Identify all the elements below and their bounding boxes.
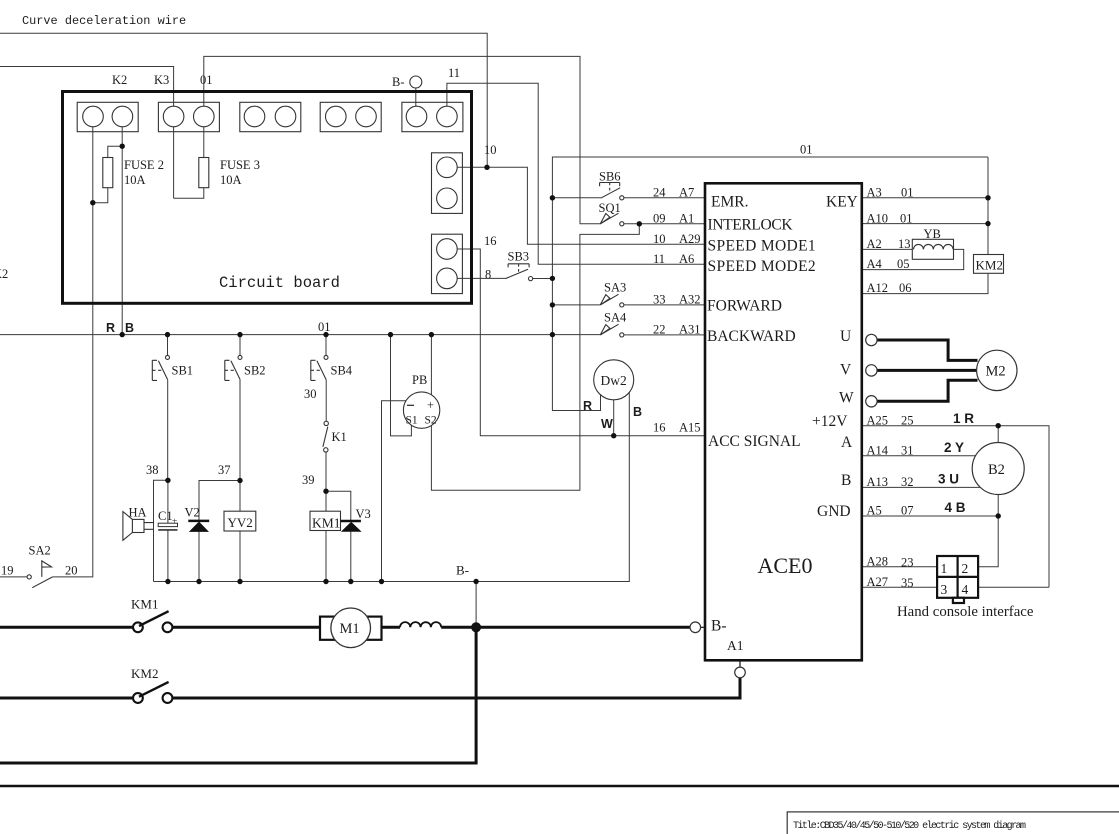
wire: SB2 to node 37: [239, 380, 241, 511]
svg-text:R: R: [106, 321, 115, 335]
contactor coil KM2: [974, 255, 1004, 274]
wire: ACE0 A3 KEY line to 01 rail: [862, 197, 988, 199]
svg-text:23: 23: [901, 556, 914, 570]
terminal block TB7 (right lower, pins 16/8): [432, 234, 463, 293]
wire: V phase: [877, 369, 977, 372]
svg-text:ACE0: ACE0: [758, 553, 813, 578]
fuse FUSE2: [103, 158, 113, 188]
terminal block TB5 on circuit board: [402, 102, 463, 131]
wire: SB6 out to ACE0 A7: [624, 197, 705, 199]
svg-text:FUSE 2: FUSE 2: [124, 158, 164, 172]
svg-text:01: 01: [800, 143, 813, 157]
wire: ACE0 A10 line to 01 rail: [862, 223, 988, 225]
svg-text:A13: A13: [867, 475, 889, 489]
svg-text:1 R: 1 R: [953, 411, 974, 426]
svg-text:SA3: SA3: [604, 281, 626, 295]
wire: B- sense from bus to motor junction: [475, 582, 477, 628]
pushbutton switch SB6 (horizontal): [600, 183, 624, 200]
svg-text:SPEED MODE1: SPEED MODE1: [708, 238, 816, 255]
svg-text:3: 3: [941, 582, 948, 597]
svg-text:B: B: [125, 321, 134, 335]
wire: 11 net from board terminal to ACE0 A6: [447, 83, 705, 264]
solenoid valve coil YV2: [224, 511, 256, 531]
svg-text:SA2: SA2: [29, 544, 51, 558]
svg-text:R: R: [583, 399, 592, 413]
wire: W phase: [877, 380, 978, 401]
svg-text:4: 4: [962, 582, 969, 597]
battery meter B2: [972, 443, 1024, 495]
svg-text:SB1: SB1: [172, 364, 194, 378]
svg-text:SQ1: SQ1: [599, 201, 621, 215]
svg-text:Hand console interface: Hand console interface: [897, 604, 1034, 620]
series inductor: [400, 622, 441, 627]
wire: SA3 branch: [552, 304, 600, 306]
wire: net 16 from board block to ACC line: [457, 249, 705, 436]
wire: YB out to ACE0 A4 05 line: [862, 249, 964, 269]
svg-text:KM2: KM2: [976, 258, 1003, 273]
wire: C1 bottom lead: [167, 530, 169, 582]
power contact KM1: [133, 611, 172, 632]
svg-text:SA4: SA4: [604, 311, 627, 325]
svg-text:W: W: [601, 417, 613, 431]
svg-text:13: 13: [898, 237, 911, 251]
svg-text:A12: A12: [867, 281, 889, 295]
svg-text:8: 8: [485, 268, 491, 282]
wire: PB plus supply from bus: [430, 335, 432, 395]
svg-text:19: 19: [1, 564, 14, 578]
wire: FUSE2 top link: [108, 146, 122, 157]
wire: V2 bottom lead: [198, 532, 200, 582]
wire: SB3 output to vertical bus: [533, 278, 553, 280]
svg-text:B-: B-: [392, 75, 405, 89]
svg-text:06: 06: [899, 281, 912, 295]
wire: ACE0 A25 +12V line to right rail: [862, 426, 1049, 588]
svg-text:A6: A6: [679, 252, 694, 266]
svg-text:M1: M1: [340, 621, 360, 637]
node: B- motor junction: [471, 622, 481, 632]
svg-text:C1: C1: [158, 509, 173, 523]
svg-text:A14: A14: [867, 444, 889, 458]
wire: M1 to inductor: [382, 626, 401, 629]
wire: B2 top lead: [997, 426, 999, 443]
svg-text:10A: 10A: [124, 173, 146, 187]
svg-text:22: 22: [653, 323, 666, 337]
svg-text:39: 39: [302, 473, 315, 487]
svg-text:PB: PB: [412, 373, 427, 387]
svg-text:YB: YB: [924, 227, 941, 241]
wire: main bus R/B to SA4: [0, 334, 600, 336]
svg-text:B: B: [841, 472, 851, 489]
svg-text:SB4: SB4: [331, 364, 353, 378]
svg-text:KEY: KEY: [826, 194, 858, 211]
svg-text:EMR.: EMR.: [711, 194, 748, 211]
fuse FUSE3: [199, 158, 209, 188]
pushbutton switch SB1: [152, 355, 169, 380]
wire: B2 bottom lead to console pin2: [978, 495, 998, 567]
svg-text:32: 32: [901, 475, 914, 489]
svg-text:K1: K1: [332, 430, 347, 444]
svg-text:07: 07: [901, 504, 914, 518]
svg-text:BACKWARD: BACKWARD: [707, 328, 796, 345]
limit switch SQ1: [600, 213, 624, 226]
pushbutton switch SB4: [311, 355, 328, 380]
svg-text:SB3: SB3: [508, 250, 530, 264]
wire: KM2 coil to A12 line: [862, 273, 988, 293]
wire: ACE0 A27 line to console: [862, 586, 937, 588]
svg-text:16: 16: [653, 421, 666, 435]
terminal circle U: [866, 334, 877, 345]
svg-text:A1: A1: [679, 212, 694, 226]
wire: K3 terminal lower lead: [173, 127, 175, 199]
diode V3: [341, 520, 361, 523]
svg-text:01: 01: [901, 186, 914, 200]
wire: FUSE3 bottom link: [174, 188, 204, 199]
svg-text:YV2: YV2: [228, 515, 253, 530]
selector switch SA4: [600, 324, 624, 337]
svg-text:GND: GND: [817, 503, 851, 520]
wire: bottom bus B- to Dw2 B terminal: [154, 393, 630, 582]
wire: SB6 branch: [552, 197, 600, 199]
wire: ACE0 A28 line to console: [862, 566, 937, 568]
wire: C1 top lead: [167, 480, 169, 523]
svg-text:B: B: [633, 405, 642, 419]
svg-text:W: W: [839, 389, 854, 406]
terminal block TB3 on circuit board: [240, 102, 301, 131]
circuit board outline: [63, 92, 472, 304]
capacitor C1: [158, 523, 177, 526]
svg-text:Title:CBD35/40/45/50-510/520 e: Title:CBD35/40/45/50-510/520 electric sy…: [793, 820, 1026, 832]
svg-text:SB2: SB2: [244, 364, 266, 378]
wire: SA2 19 lead: [0, 576, 27, 578]
horn HA: [123, 512, 154, 541]
svg-text:01: 01: [200, 73, 213, 87]
svg-text:A10: A10: [867, 211, 889, 225]
svg-text:38: 38: [146, 463, 159, 477]
svg-text:37: 37: [218, 463, 231, 477]
svg-text:B-: B-: [456, 563, 469, 578]
svg-text:B2: B2: [988, 462, 1005, 478]
wire: curve deceleration wire net 10 top: [0, 33, 487, 167]
wire: net 8 from board block to SB3: [457, 277, 505, 279]
diode V2: [188, 520, 209, 523]
speed sensor Dw2: [594, 360, 634, 400]
svg-text:V2: V2: [185, 506, 200, 520]
svg-text:INTERLOCK: INTERLOCK: [708, 216, 794, 233]
pushbutton switch SB3 (horizontal): [506, 264, 533, 281]
wire: inductor to ACE0 B- terminal: [441, 626, 690, 629]
svg-text:B-: B-: [711, 618, 727, 635]
wire: PB S1 to bottom bus: [382, 401, 406, 582]
terminal circle B-: [690, 622, 701, 633]
svg-text:16: 16: [484, 234, 497, 248]
wire: ACE0 A13 line to B2: [862, 486, 980, 488]
svg-text:10: 10: [484, 143, 497, 157]
wire: SB4 branch from bus: [325, 335, 327, 356]
wire: K2 B lead through board to bus: [121, 127, 123, 335]
wire: KM2 charge line left: [0, 697, 133, 700]
svg-text:A32: A32: [679, 293, 701, 307]
border: bottom frame line: [0, 785, 1119, 788]
wire: 01 vertical bus and top run to key rail: [552, 157, 988, 411]
svg-text:24: 24: [653, 186, 666, 200]
svg-text:A4: A4: [867, 257, 883, 271]
svg-text:S1: S1: [406, 415, 418, 427]
svg-text:SPEED MODE2: SPEED MODE2: [708, 258, 816, 275]
wire: ACE0 A14 line to B2: [862, 455, 976, 457]
terminal circle W: [866, 396, 877, 407]
svg-text:35: 35: [901, 576, 914, 590]
wire: ACE0 A5 GND line to B2 bottom junction: [862, 515, 998, 517]
svg-text:A29: A29: [679, 232, 701, 246]
svg-text:20: 20: [65, 564, 78, 578]
terminal block TB4 on circuit board: [320, 102, 381, 131]
hand console interface connector: [937, 556, 978, 603]
svg-text:A3: A3: [867, 186, 882, 200]
terminal block TB2 on circuit board: [158, 102, 219, 131]
svg-text:A5: A5: [867, 504, 882, 518]
wire: SB2 branch from bus: [239, 335, 241, 356]
svg-text:01: 01: [900, 211, 913, 225]
wire: SA4 out to ACE0 A31: [624, 334, 705, 336]
svg-text:A2: A2: [867, 237, 882, 251]
pump motor M2: [977, 350, 1017, 390]
svg-text:05: 05: [897, 257, 910, 271]
wire: SA2 20 lead up to fuse wire: [53, 127, 93, 577]
wire: SB1 branch from bus: [167, 335, 169, 356]
wire: console pin4 to right rail: [978, 586, 1049, 588]
svg-text:V3: V3: [356, 507, 371, 521]
wire: SB4 to K1: [325, 380, 327, 421]
wire: PB minus supply from bus: [391, 335, 412, 436]
svg-text:33: 33: [653, 293, 666, 307]
wire: KM1 motor line left: [0, 626, 133, 629]
svg-text:Curve deceleration wire: Curve deceleration wire: [22, 14, 186, 28]
svg-text:A25: A25: [867, 414, 889, 428]
relay contact K1: [323, 421, 329, 452]
svg-text:K2: K2: [112, 73, 127, 87]
wire: FUSE3 top lead: [203, 127, 205, 158]
wire: node 38 left leg to speaker and bottom bus: [154, 480, 168, 581]
svg-text:11: 11: [653, 252, 665, 266]
svg-text:K3: K3: [154, 73, 169, 87]
brake coil YB: [912, 239, 953, 259]
svg-text:A31: A31: [679, 323, 701, 337]
svg-text:2: 2: [962, 561, 969, 576]
wire: YV2 bottom lead: [239, 531, 241, 582]
svg-text:31: 31: [901, 444, 914, 458]
wire: KM2 contact to A1 terminal: [172, 678, 740, 698]
svg-text:M2: M2: [986, 364, 1006, 380]
svg-text:A27: A27: [867, 575, 889, 589]
svg-text:FUSE 3: FUSE 3: [220, 158, 260, 172]
contactor coil KM1: [310, 511, 341, 530]
svg-text:S2: S2: [425, 415, 437, 427]
wire: 01 net from board terminal up and over to SQ1 left: [204, 56, 601, 223]
wire: Dw2 W terminal to ACC line: [613, 400, 615, 436]
throttle pot PB: [403, 392, 439, 428]
svg-text:Dw2: Dw2: [601, 373, 627, 388]
svg-text:K2: K2: [0, 267, 8, 281]
svg-text:SB6: SB6: [599, 170, 621, 184]
svg-text:4 B: 4 B: [945, 500, 966, 515]
svg-text:01: 01: [318, 320, 331, 334]
terminal circle A1: [735, 667, 746, 678]
wire: node 39 right leg to V3: [326, 491, 351, 521]
wire: K3 net to left edge: [0, 67, 174, 107]
svg-text:A1: A1: [727, 638, 744, 653]
wire: ACE0 A2 13 line to YB: [862, 248, 913, 250]
svg-text:Circuit board: Circuit board: [219, 274, 340, 292]
wire: SA3 out to ACE0 A32: [624, 304, 705, 306]
wire: A1 terminal stub: [739, 660, 741, 667]
wire: U phase: [877, 340, 978, 360]
svg-text:U: U: [840, 328, 851, 345]
wire: KM1 contact to M1: [172, 626, 320, 629]
pushbutton switch SB2: [225, 355, 242, 380]
svg-text:2 Y: 2 Y: [944, 440, 964, 455]
svg-text:+12V: +12V: [812, 413, 848, 430]
power contact KM2: [133, 682, 172, 703]
svg-text:KM1: KM1: [131, 597, 158, 612]
svg-text:A28: A28: [867, 555, 889, 569]
svg-text:V: V: [840, 362, 852, 379]
wire: net 10 from board block to ACE0 A29: [457, 167, 705, 244]
svg-text:1: 1: [941, 561, 948, 576]
svg-text:A: A: [841, 434, 853, 451]
svg-text:3 U: 3 U: [938, 472, 959, 487]
svg-text:25: 25: [901, 414, 914, 428]
wire: 01 key rail down to KM2 coil: [987, 157, 989, 255]
svg-text:KM2: KM2: [131, 666, 158, 681]
terminal block TB1 on circuit board: [77, 102, 138, 131]
svg-text:+: +: [427, 398, 434, 412]
wire: SB1 to node 38: [167, 380, 169, 481]
wire: V3 bottom lead: [350, 531, 352, 581]
svg-text:10: 10: [653, 232, 666, 246]
wire: SQ1 out junction down to PB S2: [431, 224, 639, 491]
wire: FUSE2 bottom link: [93, 188, 108, 203]
svg-text:A7: A7: [679, 186, 694, 200]
wire: ACE0 B- terminal stub: [700, 626, 705, 628]
svg-text:09: 09: [653, 212, 666, 226]
controller ACE0 box: [705, 183, 862, 660]
wire: KM1 coil bottom lead: [325, 531, 327, 582]
terminal block TB6 (right upper, pins 10/x): [432, 153, 463, 214]
title block: [787, 812, 1119, 834]
traction motor M1: [320, 617, 382, 640]
wire: B- return vertical and bottom run: [0, 627, 476, 763]
svg-text:KM1: KM1: [312, 516, 341, 531]
svg-text:ACC SIGNAL: ACC SIGNAL: [708, 433, 801, 450]
wire: B- top terminal lead: [415, 88, 417, 106]
terminal circle V: [866, 365, 877, 376]
flag switch SA2: [27, 561, 52, 588]
svg-text:10A: 10A: [220, 173, 242, 187]
wire: node 37 left leg to V2: [199, 481, 240, 520]
svg-text:11: 11: [448, 66, 460, 80]
svg-text:+: +: [172, 517, 177, 527]
svg-text:30: 30: [304, 387, 317, 401]
wire: K1 to node 39 and KM1 coil: [325, 452, 327, 511]
selector switch SA3: [600, 294, 624, 307]
svg-text:FORWARD: FORWARD: [707, 298, 782, 315]
wire: SQ1 out to ACE0 A1: [624, 223, 705, 225]
svg-text:HA: HA: [129, 506, 147, 520]
svg-text:A15: A15: [679, 421, 701, 435]
